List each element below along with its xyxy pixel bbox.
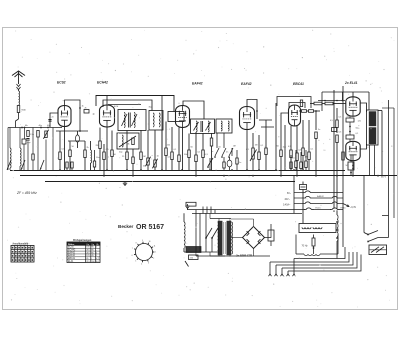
oscillator coil box [117, 133, 139, 149]
wire EBC41 grid [281, 113, 289, 127]
svg-text:50k: 50k [184, 154, 187, 156]
IF transformer T2 box [191, 119, 215, 134]
wire lamp feed vertical [302, 182, 304, 224]
svg-text:ECH: ECH [114, 106, 119, 108]
IF transformer T2 primary [196, 121, 197, 132]
wire EAF42-1 cathode [182, 128, 184, 171]
svg-text:7: 7 [132, 248, 133, 250]
junction dot B+ right [377, 175, 379, 177]
svg-text:1: 1 [155, 252, 156, 254]
heater dropper row3 [294, 202, 343, 204]
oscillator trimmer arrow [119, 136, 136, 147]
wire ECH42 cathode [106, 127, 108, 170]
bridge rectifier diamond [243, 227, 265, 249]
svg-text:10n: 10n [283, 147, 286, 149]
wire inner loop ECH42 [103, 100, 152, 111]
resistor EBC41 plate a [302, 110, 307, 113]
scan speckle noise [7, 30, 394, 308]
tiny value labels band C [219, 145, 258, 154]
fuse switch a [205, 213, 212, 252]
tuning coil L3 [20, 128, 21, 171]
label heater EL41 b [341, 208, 347, 210]
vertical box detector [210, 133, 213, 170]
wire det horiz a [259, 120, 274, 127]
wire interconnect row 3 [282, 252, 357, 268]
switch inside connector [370, 247, 387, 253]
antenna [12, 71, 25, 91]
capacitor left mid [32, 154, 34, 160]
svg-text:1M: 1M [233, 146, 236, 148]
resistor under EAF42-1 b [168, 127, 174, 170]
wire power bottom row [184, 252, 225, 256]
wire ECH42 plate to loop [106, 96, 108, 106]
tube voltage table [67, 240, 100, 263]
svg-text:2k: 2k [87, 147, 89, 149]
resistor on left vertical [342, 152, 345, 160]
wires left verticals [8, 128, 53, 171]
bridge diode 3 [247, 239, 249, 244]
svg-text:1n: 1n [239, 162, 241, 164]
cathode chain EL41 [346, 116, 360, 139]
svg-text:10n: 10n [96, 157, 99, 159]
wire det cathode [246, 130, 248, 171]
label Ms [25, 125, 51, 127]
antenna coupling coil [19, 91, 20, 105]
resistor under EBC41 a [290, 126, 293, 170]
svg-text:EC92: EC92 [68, 247, 74, 249]
label rectifier [235, 254, 252, 258]
IF transformer T1 secondary [134, 113, 135, 128]
svg-text:2n: 2n [52, 117, 54, 119]
resistor AVC 1 [140, 130, 146, 170]
wire B+ bus [20, 175, 397, 177]
svg-text:EAF42: EAF42 [68, 251, 76, 254]
wire EBC41 inner loop [289, 103, 305, 110]
wire heater feed vertical [293, 176, 295, 214]
wire plate loop EC92 [65, 100, 81, 131]
svg-text:40V~: 40V~ [285, 199, 291, 201]
svg-text:Ug: Ug [92, 244, 95, 246]
mains choke coil [184, 222, 185, 248]
IF transformer T1 primary [124, 113, 125, 128]
resistor grid ECH42 [96, 128, 102, 171]
hum-bucking coil [296, 254, 338, 256]
field coil winding a [302, 227, 311, 229]
label 2x EL41 [344, 81, 358, 85]
svg-text:2n: 2n [226, 152, 228, 154]
tube EAF42 first [176, 106, 190, 128]
junction dots B plus bus [103, 175, 354, 177]
capacitor under T1 [132, 149, 135, 176]
label 6.3V [350, 207, 357, 209]
resistor speaker net [312, 235, 315, 255]
svg-text:ECH42: ECH42 [97, 81, 108, 85]
tube EAF42 second [240, 107, 255, 130]
wire mains lead [183, 213, 185, 222]
wire bridge right [265, 230, 272, 238]
resistor right column a [290, 155, 293, 170]
svg-text:~6,3V: ~6,3V [350, 207, 357, 209]
oscillator capacitor [128, 138, 135, 146]
tiny value labels band B [167, 145, 213, 154]
wire transformer top [210, 214, 231, 222]
svg-text:5k: 5k [143, 166, 145, 168]
svg-text:EL41: EL41 [341, 208, 347, 210]
svg-text:Becker: Becker [118, 224, 134, 229]
wire interconnect row 5 [294, 247, 345, 259]
wire interconnect row 2 [276, 252, 353, 265]
wire grid EC92 [50, 113, 58, 127]
wire interconnect row 4 [288, 255, 361, 272]
wire heater ticks [203, 207, 215, 214]
label B+ right [381, 176, 386, 179]
tube EC92 [58, 106, 71, 127]
wire pin feed left [210, 252, 270, 257]
tiny value labels band D [277, 146, 315, 152]
wire transformer taps [370, 145, 375, 176]
connector block [369, 245, 387, 255]
trimmer osc a [145, 130, 150, 170]
label ECH42 [97, 81, 108, 85]
ground symbol on ground bus [123, 181, 127, 185]
oscillator coil winding [122, 135, 123, 147]
switch pickup [207, 158, 213, 168]
ground heater [185, 204, 189, 210]
capacitor osc ECH42 [111, 131, 117, 171]
output transformer core lower [369, 128, 376, 145]
wire field coil sides [296, 235, 338, 255]
wire det verticals [210, 133, 232, 170]
fuse switch b [211, 228, 218, 252]
svg-text:8V~: 8V~ [287, 193, 292, 195]
trimmer osc b [152, 130, 157, 170]
svg-text:3: 3 [148, 263, 149, 265]
capacitor screen EAF42-1 [195, 132, 198, 176]
mains label box [189, 255, 199, 260]
wire horizontals right [382, 215, 389, 217]
tube EBC41 [289, 105, 301, 126]
label OR 5167 [136, 224, 164, 231]
svg-text:1k: 1k [82, 106, 84, 108]
junction dots AVC bus [59, 169, 304, 171]
wire ground bus [45, 181, 295, 183]
resistor beside EC92 [79, 107, 89, 113]
tiny labels ECH42 area [119, 152, 160, 168]
svg-text:70 Hy: 70 Hy [302, 245, 309, 247]
svg-text:OR 5167: OR 5167 [136, 224, 164, 231]
svg-text:EL41: EL41 [316, 208, 322, 210]
wire heater bus upper [187, 209, 343, 211]
capacitor under EAF42-1 [178, 128, 181, 171]
capacitor detector [223, 157, 225, 170]
tuning coil L2 [10, 128, 11, 171]
svg-text:ECH42: ECH42 [68, 250, 76, 252]
svg-text:EL41: EL41 [68, 261, 74, 263]
label EC92 [57, 81, 66, 85]
wire EL41 plate upper [360, 103, 367, 112]
svg-text:5n: 5n [211, 151, 213, 153]
wire EL41 left vertical a [342, 86, 344, 247]
wire EBC41 plate down [315, 111, 317, 130]
svg-text:5n: 5n [318, 129, 320, 131]
label TA [302, 245, 309, 247]
svg-text:1M: 1M [255, 145, 258, 147]
chassis pin 5 [293, 259, 296, 277]
bridge diode 2 [258, 231, 260, 236]
label EAF42 second [241, 82, 252, 86]
svg-text:EBC41: EBC41 [293, 82, 304, 86]
grid capacitor EC92 [48, 120, 51, 122]
wire phase splitter row [310, 103, 346, 105]
svg-text:11: 11 [154, 246, 156, 248]
chassis pin 3 [281, 268, 284, 276]
wire osc right [161, 130, 163, 170]
bridge diode 1 [247, 231, 249, 236]
resistor box 351 [348, 155, 354, 176]
power transformer secondary [0, 0, 1, 1]
power transformer primary [0, 0, 1, 1]
label heater 0.45A [283, 203, 291, 206]
resistor screen EAF42-1 [184, 134, 190, 171]
tiny value labels band E [318, 117, 362, 168]
wire bridge left [231, 237, 243, 239]
switch detector 3 [228, 148, 233, 158]
circle component detector [227, 157, 232, 170]
label heater EL41 a [316, 208, 322, 210]
chassis pin 1 [269, 262, 272, 276]
wire EBC41 aux [284, 125, 286, 170]
label IF frequency [16, 191, 37, 195]
svg-text:10: 10 [149, 241, 151, 243]
trimmer arrows T2 [194, 122, 211, 131]
svg-text:9: 9 [142, 240, 143, 242]
wire top loop EAF42-1 [162, 96, 204, 171]
band switch contact 2 [21, 160, 25, 170]
resistor under EBC41 d [305, 120, 311, 170]
wire EBC41 left vertical [275, 103, 277, 170]
heater dropper row2 [294, 196, 343, 198]
phase splitter resistor b [325, 102, 333, 105]
electrolytic EC92 [76, 131, 80, 148]
wire speaker outer vertical [388, 100, 390, 238]
cathode resistor EC92 [59, 131, 62, 170]
grid resistor EL41 upper [336, 108, 339, 133]
wire AVC bus [10, 170, 345, 172]
mains selector dark box [186, 247, 201, 253]
heater series resistor [186, 202, 196, 206]
IF transformer T2 core [201, 121, 203, 132]
band switch contact 1 [7, 160, 11, 170]
heater bus humps row4 [304, 208, 340, 210]
svg-text:2k: 2k [85, 108, 87, 110]
wire speaker top loop [378, 111, 382, 114]
heater dropper row1 [294, 191, 343, 193]
switch speaker a [364, 231, 378, 236]
wire speaker right vertical [382, 108, 394, 218]
svg-text:0,45A~: 0,45A~ [283, 203, 291, 206]
resistor det c [258, 135, 261, 170]
volume potentiometer [250, 133, 257, 170]
wire EL41 between [349, 117, 351, 142]
wire interconnect row 1 [270, 252, 349, 262]
wire bridge top [231, 219, 254, 227]
resistor under EAF42-1 a [165, 122, 168, 171]
wire EBC41 plate row [299, 110, 320, 112]
field coil box [299, 224, 336, 233]
label heater 40V [285, 199, 291, 201]
filter capacitor block [268, 224, 274, 246]
label Becker [118, 224, 134, 229]
wire heater bus lower [192, 213, 302, 215]
capacitor coupling output [315, 132, 318, 176]
svg-text:EC92: EC92 [57, 81, 66, 85]
svg-text:2M: 2M [96, 145, 99, 147]
switch detector 2 [221, 148, 226, 158]
label heater 8V [287, 193, 292, 195]
resistor on EBC41 inner loop [300, 100, 302, 107]
capacitor EBC41 grid [280, 127, 283, 176]
chassis pin 4 [287, 271, 290, 276]
band switch contact 3 [40, 160, 44, 170]
grid resistor EL41 lower [336, 135, 339, 215]
output transformer core upper [369, 112, 376, 127]
resistor osc ECH42 [103, 144, 106, 176]
svg-text:6: 6 [132, 255, 133, 257]
svg-text:2x B250 C75: 2x B250 C75 [235, 254, 252, 258]
svg-text:EAF42: EAF42 [192, 82, 203, 86]
wire bridge bottom [253, 249, 255, 257]
resistor right column d [305, 150, 308, 170]
tube ECH42 [100, 105, 115, 127]
resistor plate EAF42-1 [202, 133, 209, 170]
power transformer core [218, 221, 233, 255]
wire antenna down [16, 113, 19, 128]
chassis pin 2 [275, 265, 278, 276]
capacitor under EC92 [69, 141, 72, 170]
tiny value labels band A [62, 146, 110, 159]
wire power verticals [196, 210, 200, 252]
IF transformer T1 core [129, 113, 131, 128]
svg-text:8: 8 [136, 242, 137, 244]
junction dots top row [21, 127, 49, 129]
svg-text:25k: 25k [167, 145, 170, 147]
resistor EC92 out [84, 141, 87, 170]
resistor under T1 [122, 131, 128, 171]
svg-text:EAF42: EAF42 [317, 195, 324, 198]
resistor EBC41 plate b [309, 110, 314, 113]
capacitor output left column [332, 128, 337, 132]
svg-text:3k: 3k [128, 144, 130, 146]
wire left top row [8, 127, 62, 129]
svg-text:Röhre: Röhre [68, 244, 75, 246]
trimmer arrows T1 [122, 114, 138, 126]
svg-text:2x EL41: 2x EL41 [344, 81, 358, 85]
resistor right column c [300, 152, 303, 170]
wire top loop ECH42 [96, 96, 174, 112]
svg-text:EAF42: EAF42 [68, 254, 76, 257]
resistor antenna lead [17, 106, 26, 113]
resistor detector right [236, 150, 241, 170]
svg-text:80 V: 80 V [381, 176, 386, 179]
dial scale disc [132, 240, 157, 266]
feedback network wires [318, 92, 369, 111]
svg-text:Ms: Ms [25, 125, 28, 127]
AVC box EAF42-1 [168, 112, 184, 122]
tube EL41 lower [346, 141, 360, 160]
wire cathode EC92 [64, 127, 66, 171]
svg-text:Prüfspannungen: Prüfspannungen [73, 240, 92, 242]
wire EL41 bottom [352, 161, 354, 176]
IF transformer T1 box [118, 110, 146, 131]
resistor under EBC41 b [292, 126, 298, 176]
tube EL41 upper [346, 97, 360, 116]
resistor under EBC41 c [302, 120, 305, 170]
capacitor tuner mid [37, 131, 40, 171]
wire EL41 left vertical b [333, 90, 335, 212]
resistor right column b [295, 150, 298, 170]
pilot lamp box [300, 185, 307, 190]
field coil winding b [313, 227, 322, 229]
label EBC41 [293, 82, 304, 86]
IF coil pair [149, 111, 163, 131]
junction dot EC92 plate [79, 130, 81, 132]
wire EL41 plate lower [360, 144, 367, 149]
switch detector 1 [214, 148, 219, 158]
small caps bottom row EC92 [66, 162, 73, 170]
bridge diode 4 [258, 239, 260, 244]
svg-text:Uk: Uk [96, 244, 98, 246]
wire switch feeds [364, 176, 368, 235]
heater tap arrow [343, 204, 349, 207]
small caps bottom row EC92 b [93, 150, 95, 170]
label EAF42 first [192, 82, 203, 86]
small box tuner [22, 139, 31, 144]
choke vertical [336, 215, 338, 259]
svg-text:EBC41: EBC41 [68, 258, 76, 260]
svg-text:4: 4 [141, 264, 142, 266]
svg-text:5: 5 [135, 261, 136, 263]
IF transformer T2 secondary [208, 121, 209, 132]
trimmer capacitor antenna [43, 130, 48, 170]
phase splitter resistor a [314, 102, 322, 105]
output transformer frame [367, 110, 379, 145]
switch speaker b [367, 238, 388, 243]
wire top loop EAF42-2 [247, 100, 258, 120]
IF transformer T3 box [216, 119, 232, 133]
svg-text:1M: 1M [143, 156, 146, 158]
wire EBC41 outer loop [277, 97, 311, 109]
svg-text:2: 2 [153, 258, 154, 260]
wire mains choke bottom [183, 248, 185, 252]
choke EC92 output [91, 141, 92, 170]
wire row under EC92 [56, 131, 88, 141]
wire feedback to EL41 [353, 92, 369, 110]
label heater EAF42 row2 [317, 195, 324, 198]
mains plug stub [185, 261, 189, 267]
padder capacitor [26, 131, 34, 141]
capacitor det d [261, 120, 268, 170]
connection pin table [11, 243, 34, 262]
svg-text:ZF = 459 kHz: ZF = 459 kHz [16, 191, 37, 195]
svg-text:EAF42: EAF42 [241, 82, 252, 86]
tiny value labels band F [52, 106, 153, 119]
